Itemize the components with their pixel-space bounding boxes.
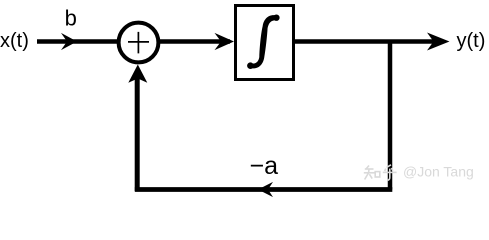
svg-text:x(t): x(t) xyxy=(0,30,29,52)
wire feedback vertical drop xyxy=(388,42,393,190)
arrowhead at integrator input xyxy=(215,33,235,50)
plus sign in summing junction xyxy=(128,32,149,54)
integral sign glyph xyxy=(247,15,279,70)
wire summing junction to integrator xyxy=(158,39,230,43)
wire input to summing junction xyxy=(37,39,120,43)
arrowhead on input wire xyxy=(61,33,77,50)
summing junction S1 xyxy=(119,23,159,63)
wire integrator to output y(t) xyxy=(294,39,434,43)
svg-text:@Jon Tang: @Jon Tang xyxy=(403,164,474,180)
wire feedback bottom horizontal xyxy=(135,187,393,192)
arrowhead into summing junction bottom xyxy=(128,65,147,83)
watermark zhihu logo glyph 知 xyxy=(364,166,380,180)
svg-text:b: b xyxy=(65,6,77,31)
arrowhead on feedback wire pointing left xyxy=(258,182,273,197)
svg-text:−a: −a xyxy=(250,152,279,180)
svg-text:y(t): y(t) xyxy=(457,30,486,52)
watermark zhihu logo glyph 乎 xyxy=(383,165,397,180)
arrowhead at output xyxy=(427,33,450,51)
wire feedback rise to summing junction xyxy=(135,78,140,191)
integrator block U1 xyxy=(236,6,294,80)
